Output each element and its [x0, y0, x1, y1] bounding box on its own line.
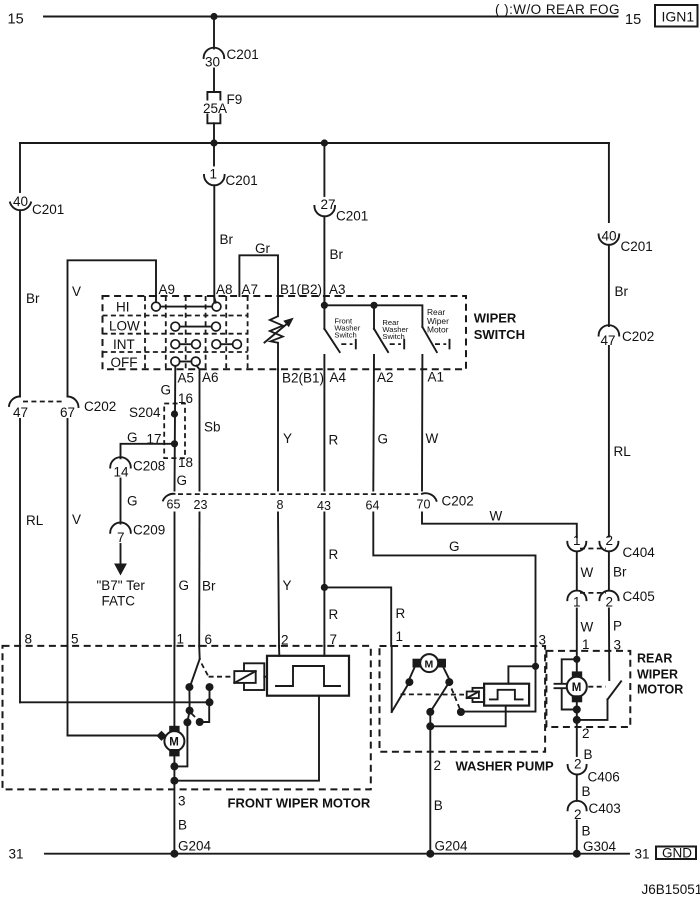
svg-text:Br: Br	[615, 284, 629, 299]
svg-text:G: G	[127, 430, 138, 445]
svg-text:J6B15051: J6B15051	[642, 882, 700, 897]
svg-text:Motor: Motor	[427, 324, 449, 334]
svg-text:HI: HI	[116, 300, 130, 315]
svg-text:31: 31	[635, 847, 650, 862]
svg-text:IGN1: IGN1	[662, 9, 695, 25]
svg-text:G: G	[179, 578, 190, 593]
svg-text:43: 43	[317, 499, 331, 513]
svg-text:8: 8	[277, 498, 284, 512]
svg-text:W: W	[581, 620, 594, 635]
svg-text:C201: C201	[336, 209, 368, 224]
svg-text:R: R	[396, 606, 406, 621]
svg-text:17: 17	[147, 432, 162, 447]
svg-text:C208: C208	[133, 459, 165, 474]
svg-text:R: R	[329, 607, 339, 622]
svg-text:C202: C202	[622, 329, 654, 344]
svg-text:MOTOR: MOTOR	[637, 683, 683, 697]
svg-text:25A: 25A	[203, 101, 227, 116]
svg-text:Gr: Gr	[255, 241, 271, 256]
svg-text:GND: GND	[662, 846, 692, 861]
svg-text:C209: C209	[133, 523, 165, 538]
svg-text:B: B	[582, 784, 591, 799]
svg-text:C406: C406	[588, 770, 620, 785]
svg-text:23: 23	[194, 498, 208, 512]
svg-text:Br: Br	[330, 247, 344, 262]
svg-text:INT: INT	[113, 337, 135, 352]
svg-text:40: 40	[602, 229, 617, 244]
svg-text:A2: A2	[377, 370, 394, 385]
svg-text:B2(B1): B2(B1)	[282, 371, 324, 386]
svg-text:1: 1	[396, 629, 404, 644]
svg-text:W: W	[581, 565, 594, 580]
svg-text:5: 5	[71, 632, 79, 647]
svg-text:FRONT WIPER MOTOR: FRONT WIPER MOTOR	[228, 796, 371, 811]
svg-text:B: B	[584, 747, 593, 762]
svg-text:M: M	[572, 682, 582, 694]
svg-text:"B7" Ter: "B7" Ter	[97, 578, 146, 593]
svg-text:B: B	[178, 818, 187, 833]
svg-text:A6: A6	[202, 370, 219, 385]
svg-text:G: G	[449, 539, 460, 554]
svg-text:M: M	[425, 658, 434, 670]
svg-text:OFF: OFF	[111, 355, 138, 370]
svg-text:1: 1	[582, 637, 590, 652]
svg-text:3: 3	[539, 633, 547, 648]
svg-text:G: G	[161, 383, 172, 398]
svg-text:A8: A8	[216, 282, 233, 297]
svg-text:V: V	[72, 284, 81, 299]
svg-text:Sb: Sb	[204, 420, 221, 435]
svg-text:65: 65	[167, 498, 181, 512]
svg-text:1: 1	[177, 632, 185, 647]
svg-text:15: 15	[625, 12, 641, 28]
svg-text:C202: C202	[442, 494, 474, 509]
svg-text:B1(B2): B1(B2)	[280, 282, 322, 297]
svg-text:G204: G204	[178, 839, 212, 854]
svg-text:WIPER: WIPER	[637, 668, 678, 682]
svg-text:B: B	[434, 798, 443, 813]
svg-text:18: 18	[178, 455, 193, 470]
svg-text:G: G	[378, 432, 389, 447]
svg-text:G304: G304	[583, 839, 617, 854]
svg-text:47: 47	[13, 405, 28, 420]
svg-text:P: P	[613, 619, 622, 634]
svg-text:7: 7	[330, 632, 338, 647]
svg-text:Y: Y	[283, 578, 292, 593]
svg-text:C405: C405	[623, 589, 655, 604]
svg-text:Br: Br	[220, 232, 234, 247]
svg-text:1: 1	[573, 533, 581, 548]
svg-text:70: 70	[417, 498, 431, 512]
svg-text:REAR: REAR	[637, 652, 672, 666]
svg-text:40: 40	[13, 194, 28, 209]
svg-text:64: 64	[366, 499, 380, 513]
svg-text:R: R	[329, 433, 339, 448]
svg-text:Switch: Switch	[334, 331, 356, 340]
svg-text:30: 30	[205, 55, 220, 70]
svg-text:B: B	[582, 824, 591, 839]
svg-text:S204: S204	[129, 405, 161, 420]
svg-text:C201: C201	[621, 239, 653, 254]
svg-text:Switch: Switch	[382, 332, 404, 341]
svg-text:A7: A7	[242, 282, 259, 297]
svg-text:67: 67	[60, 405, 75, 420]
svg-text:A1: A1	[428, 370, 445, 385]
svg-text:WIPER: WIPER	[474, 310, 517, 325]
svg-text:2: 2	[574, 807, 582, 822]
svg-text:31: 31	[9, 847, 24, 862]
svg-text:FATC: FATC	[102, 594, 136, 609]
svg-text:RL: RL	[26, 513, 44, 528]
svg-text:R: R	[329, 547, 339, 562]
svg-text:1: 1	[573, 595, 581, 610]
svg-text:2: 2	[574, 757, 582, 772]
svg-text:14: 14	[114, 465, 130, 480]
svg-text:A4: A4	[330, 370, 347, 385]
svg-text:G: G	[127, 494, 138, 509]
svg-text:W: W	[426, 431, 439, 446]
svg-text:Br: Br	[26, 291, 40, 306]
svg-text:M: M	[169, 737, 179, 749]
svg-text:2: 2	[606, 533, 614, 548]
svg-text:C403: C403	[589, 801, 621, 816]
svg-text:7: 7	[117, 530, 125, 545]
svg-text:G: G	[177, 473, 188, 488]
svg-text:8: 8	[25, 632, 33, 647]
svg-text:WASHER PUMP: WASHER PUMP	[456, 759, 555, 774]
svg-text:2: 2	[434, 758, 442, 773]
svg-text:A3: A3	[329, 282, 346, 297]
svg-text:C404: C404	[623, 545, 656, 560]
svg-text:A9: A9	[159, 282, 176, 297]
svg-text:2: 2	[281, 633, 289, 648]
svg-text:27: 27	[321, 197, 336, 212]
svg-text:15: 15	[8, 12, 24, 28]
svg-text:Br: Br	[613, 565, 627, 580]
svg-text:C201: C201	[227, 47, 259, 62]
svg-text:A5: A5	[178, 371, 195, 386]
svg-text:Y: Y	[283, 431, 292, 446]
svg-text:C201: C201	[32, 202, 64, 217]
svg-text:W: W	[490, 509, 503, 524]
svg-text:1: 1	[210, 167, 218, 182]
svg-text:C202: C202	[84, 399, 116, 414]
svg-text:( ):W/O REAR FOG: ( ):W/O REAR FOG	[495, 2, 620, 17]
svg-text:Br: Br	[202, 579, 216, 594]
svg-text:6: 6	[205, 632, 213, 647]
svg-text:SWITCH: SWITCH	[474, 327, 525, 342]
svg-text:2: 2	[582, 726, 590, 741]
svg-text:G204: G204	[435, 839, 469, 854]
svg-text:F9: F9	[227, 92, 243, 107]
svg-text:RL: RL	[614, 444, 632, 459]
svg-text:3: 3	[178, 794, 186, 809]
svg-text:LOW: LOW	[109, 319, 140, 334]
svg-text:V: V	[72, 512, 81, 527]
svg-text:C201: C201	[226, 173, 258, 188]
svg-text:2: 2	[606, 595, 614, 610]
